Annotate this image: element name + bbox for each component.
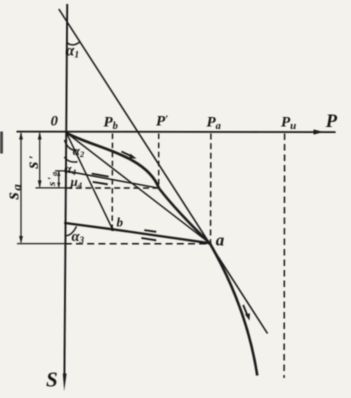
S axis	[64, 4, 67, 376]
secant O-a	[66, 133, 210, 244]
angle arc alpha2	[65, 140, 77, 151]
svg-text:a: a	[216, 231, 225, 250]
main curve below a	[210, 243, 257, 375]
secant O-b	[66, 133, 112, 230]
svg-text:μ4: μ4	[70, 174, 82, 190]
parallel marks upper pair	[92, 174, 109, 185]
loading curve O-E	[66, 133, 159, 189]
dashed horizontal at s' level	[66, 187, 159, 189]
wetted line b-a	[64, 223, 210, 243]
svg-text:sa: sa	[3, 183, 25, 201]
scan smudge left edge	[0, 132, 3, 154]
dashed horizontal at sa level	[65, 243, 208, 245]
dashed vertical at Pb	[111, 134, 113, 229]
svg-text:s′: s′	[22, 154, 42, 169]
dashed vertical at P'	[158, 134, 160, 188]
point b	[111, 228, 114, 231]
svg-text:Pu: Pu	[281, 115, 296, 133]
parallel marks lower pair	[141, 230, 156, 240]
svg-text:P′: P′	[156, 114, 168, 130]
tick s'a top	[55, 170, 67, 172]
direction arrow below a	[243, 305, 250, 321]
connector sa bottom	[17, 243, 66, 245]
svg-text:0: 0	[51, 113, 58, 129]
svg-text:s′a: s′a	[46, 171, 59, 187]
curve E-a	[159, 188, 210, 243]
line alpha1	[59, 9, 268, 334]
dimension line sa	[20, 133, 22, 243]
dimension line s'	[39, 133, 41, 187]
point a	[208, 242, 211, 245]
angle arc alpha1	[67, 42, 80, 45]
connector s' bottom	[36, 187, 68, 189]
dashed vertical at Pa	[210, 134, 212, 243]
angle arc alpha4	[64, 157, 77, 162]
svg-text:b: b	[117, 215, 124, 230]
S axis arrowhead	[63, 374, 67, 392]
svg-text:α1: α1	[66, 42, 79, 60]
svg-text:α3: α3	[72, 229, 85, 245]
dimension line s'a	[58, 172, 60, 187]
dashed vertical at Pu	[283, 134, 286, 379]
direction arrow on loading curve	[122, 152, 137, 159]
unloading line to axis	[66, 171, 159, 188]
svg-text:Pa: Pa	[207, 115, 221, 133]
angle arc alpha3	[66, 226, 76, 236]
svg-text:Pb: Pb	[104, 115, 118, 133]
svg-text:S: S	[46, 368, 58, 392]
P axis	[17, 131, 336, 134]
svg-text:P: P	[325, 112, 338, 132]
P axis arrowhead	[314, 129, 324, 134]
